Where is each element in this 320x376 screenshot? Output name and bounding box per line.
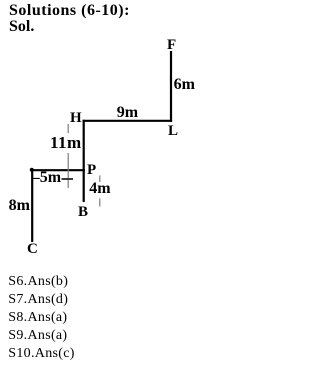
node dot at left end of 5m segment bbox=[30, 168, 34, 172]
wire 8m vertical segment to C bbox=[31, 170, 33, 242]
node label F bbox=[167, 38, 176, 52]
leader line for 4m dimension (lower segment) bbox=[99, 198, 101, 206]
heading "Solutions (6-10):" bbox=[9, 4, 130, 18]
node label C bbox=[27, 242, 38, 256]
wire H-L horizontal 9m segment bbox=[83, 120, 173, 122]
leader line for 11m dimension (upper segment) bbox=[67, 124, 69, 136]
value label 6m bbox=[174, 78, 195, 92]
wire P-left horizontal 5m segment bbox=[32, 169, 86, 171]
heading "Sol." bbox=[9, 20, 34, 34]
wire H-B vertical 11m segment bbox=[83, 120, 85, 202]
value label 9m bbox=[117, 106, 138, 120]
answers list bbox=[8, 273, 74, 363]
value label 4m bbox=[89, 182, 110, 198]
value label 8m bbox=[9, 199, 30, 213]
node label B bbox=[78, 205, 88, 219]
node label L bbox=[168, 124, 178, 138]
wire F-L vertical 6m segment bbox=[170, 51, 172, 122]
value label 5m with dash bbox=[32, 171, 61, 185]
leader line for 4m dimension (upper segment) bbox=[99, 175, 101, 183]
value label 11m bbox=[50, 133, 82, 153]
node label P bbox=[87, 163, 96, 177]
node label H bbox=[70, 111, 82, 125]
leader line for 11m dimension (lower segment) bbox=[67, 153, 69, 189]
dimension tick after 5m label bbox=[61, 176, 81, 182]
